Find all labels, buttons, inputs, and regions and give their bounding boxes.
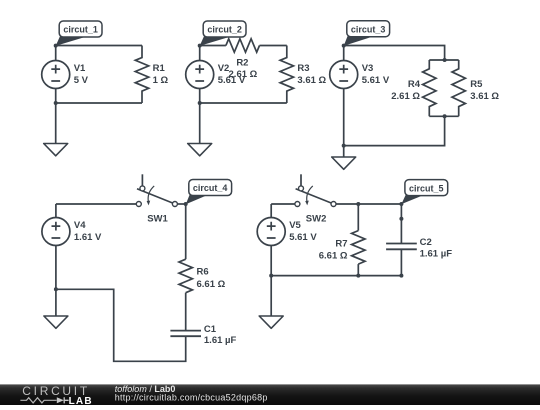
wire xyxy=(56,203,136,205)
wire xyxy=(56,289,186,361)
svg-text:circut_4: circut_4 xyxy=(193,183,228,193)
svg-text:V5: V5 xyxy=(289,220,301,231)
svg-text:R4: R4 xyxy=(408,79,421,90)
net label circut_2 xyxy=(200,21,246,46)
svg-text:2.61 Ω: 2.61 Ω xyxy=(391,91,420,102)
node xyxy=(443,114,447,118)
ground xyxy=(44,289,68,328)
svg-text:5.61 V: 5.61 V xyxy=(289,232,317,243)
svg-text:R1: R1 xyxy=(153,63,166,74)
wire xyxy=(260,45,287,47)
resistor R7 xyxy=(319,231,365,265)
svg-text:SW2: SW2 xyxy=(306,213,327,224)
wire xyxy=(55,46,57,104)
wire xyxy=(336,203,401,205)
svg-text:5.61 V: 5.61 V xyxy=(218,75,246,86)
capacitor C2 xyxy=(386,237,452,259)
wire xyxy=(400,249,402,275)
resistor R5 xyxy=(452,60,499,116)
wire xyxy=(56,102,142,104)
node xyxy=(54,44,58,48)
resistor R4 xyxy=(391,60,436,116)
CircuitLab logo xyxy=(20,384,92,407)
net label circut_4 xyxy=(186,180,232,205)
svg-text:V3: V3 xyxy=(362,63,374,74)
wire xyxy=(55,204,57,289)
node xyxy=(356,274,360,278)
svg-text:R6: R6 xyxy=(197,267,209,278)
wire xyxy=(200,102,287,104)
resistor R6 xyxy=(179,259,226,293)
wire xyxy=(185,204,187,259)
node xyxy=(399,274,403,278)
svg-text:V4: V4 xyxy=(74,220,86,231)
svg-text:R3: R3 xyxy=(297,63,309,74)
node xyxy=(356,202,360,206)
wire xyxy=(344,46,445,61)
voltage source V5 xyxy=(257,218,317,246)
ground xyxy=(188,103,212,156)
svg-text:5.61 V: 5.61 V xyxy=(362,75,390,86)
resistor R3 xyxy=(280,46,326,104)
resistor R1 xyxy=(135,46,168,104)
switch SW2 xyxy=(295,174,336,224)
wire xyxy=(185,293,187,331)
svg-text:R2: R2 xyxy=(236,57,248,68)
net label circut_3 xyxy=(344,21,390,46)
svg-text:5 V: 5 V xyxy=(74,75,89,86)
switch SW1 xyxy=(136,174,177,224)
node xyxy=(198,101,202,105)
wire xyxy=(429,59,458,61)
voltage source V3 xyxy=(330,61,390,89)
node xyxy=(54,287,58,291)
wire xyxy=(270,204,272,276)
node xyxy=(198,44,202,48)
svg-text:1.61 µF: 1.61 µF xyxy=(420,248,453,259)
node xyxy=(342,44,346,48)
capacitor C1 xyxy=(170,324,236,346)
wire xyxy=(200,45,226,47)
footer bar xyxy=(0,384,540,405)
svg-text:circut_5: circut_5 xyxy=(409,183,444,193)
wire xyxy=(271,203,295,205)
wire xyxy=(400,204,402,244)
node xyxy=(54,101,58,105)
net label circut_1 xyxy=(56,21,102,46)
svg-text:3.61 Ω: 3.61 Ω xyxy=(470,91,499,102)
resistor R2 xyxy=(226,39,260,80)
wire xyxy=(357,204,359,231)
svg-text:6.61 Ω: 6.61 Ω xyxy=(319,251,348,262)
svg-text:1.61 V: 1.61 V xyxy=(74,232,102,243)
wire xyxy=(199,46,201,104)
node xyxy=(443,58,447,62)
ground xyxy=(259,276,283,329)
svg-text:6.61 Ω: 6.61 Ω xyxy=(197,279,226,290)
voltage source V4 xyxy=(42,218,102,246)
wire xyxy=(343,46,345,146)
node xyxy=(269,274,273,278)
svg-text:V2: V2 xyxy=(218,63,230,74)
svg-text:V1: V1 xyxy=(74,63,86,74)
svg-text:circut_3: circut_3 xyxy=(351,24,386,34)
node xyxy=(184,202,188,206)
svg-text:circut_2: circut_2 xyxy=(207,25,242,35)
svg-text:http://circuitlab.com/cbcua52d: http://circuitlab.com/cbcua52dqp68p xyxy=(115,393,268,403)
node xyxy=(399,202,403,206)
wire xyxy=(429,115,458,117)
svg-text:1.61 µF: 1.61 µF xyxy=(204,335,237,346)
wire xyxy=(357,264,359,276)
node xyxy=(399,217,403,221)
wire xyxy=(56,45,142,47)
svg-text:3.61 Ω: 3.61 Ω xyxy=(297,75,326,86)
svg-text:SW1: SW1 xyxy=(147,213,168,224)
svg-text:R7: R7 xyxy=(335,238,347,249)
svg-text:C2: C2 xyxy=(420,237,432,248)
wire xyxy=(344,116,445,145)
node xyxy=(342,144,346,148)
wire xyxy=(271,275,401,277)
svg-text:R5: R5 xyxy=(470,79,483,90)
ground xyxy=(332,146,356,170)
svg-text:1 Ω: 1 Ω xyxy=(153,75,169,86)
svg-text:C1: C1 xyxy=(204,324,217,335)
net label circut_5 xyxy=(401,180,447,205)
svg-text:circut_1: circut_1 xyxy=(63,25,98,35)
voltage source V2 xyxy=(186,61,246,89)
svg-text:LAB: LAB xyxy=(69,396,93,405)
ground xyxy=(44,103,68,156)
wire xyxy=(177,203,185,205)
voltage source V1 xyxy=(42,61,89,89)
